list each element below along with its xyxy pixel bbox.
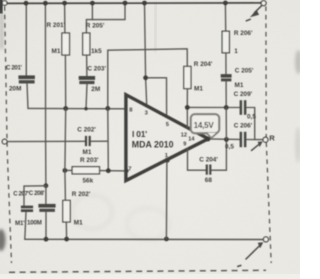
node junction C208/ground: [44, 237, 49, 242]
capacitor C207: [13, 190, 33, 239]
wire pin5 branch: [146, 78, 167, 117]
node junction R203/C202/pin7: [106, 168, 111, 173]
capacitor C202: [77, 127, 107, 156]
node junction bus/R206: [223, 1, 228, 6]
wire input: [7, 140, 85, 142]
wire link 107-139: [225, 108, 227, 140]
node junction bus/C201: [24, 1, 29, 6]
wire output from apex: [208, 138, 239, 141]
wire arrow bottom-right: [238, 242, 263, 266]
op-amp I01 MDA2010: [126, 95, 208, 181]
node junction R204-feed/W1: [105, 106, 110, 111]
resistor R202: [63, 191, 91, 239]
wire left dashed border: [5, 6, 12, 263]
node junction output/C204: [224, 137, 229, 142]
wire top supply bus: [7, 2, 261, 5]
wire pin8 input (W1): [28, 107, 126, 109]
node terminal top-left: [2, 1, 7, 6]
capacitor C204: [188, 140, 227, 185]
resistor R201: [47, 4, 70, 108]
wire ground bus: [25, 238, 263, 240]
node junction C205/wire107: [224, 105, 229, 110]
node terminal output R: [263, 137, 268, 142]
node junction bus/R201: [62, 1, 67, 6]
node junction bus/pin3: [142, 1, 147, 6]
wire arrow top-right: [246, 6, 261, 21]
voltage callout 14,5V: [191, 114, 219, 138]
node terminal bottom-right: [263, 237, 268, 242]
wire R205 feed from bus: [86, 3, 125, 33]
node junction bus/R205feed: [123, 1, 128, 6]
capacitor C206: [225, 122, 263, 150]
node junction R202/ground: [64, 237, 69, 242]
capacitor C201: [6, 4, 35, 108]
node junction pin7/edge: [124, 169, 128, 173]
node junction pin1/edge: [165, 158, 170, 163]
resistor R203: [65, 157, 108, 185]
capacitor C203: [79, 65, 107, 108]
wire bus stub at x92: [91, 3, 93, 19]
wire mid horizontal y107: [187, 106, 239, 108]
wire pin1: [165, 160, 168, 239]
node junction bus/long-line: [43, 1, 48, 6]
node junction pin1/ground: [164, 237, 169, 242]
wire right dashed border: [266, 6, 271, 263]
wire bottom dashed border: [9, 270, 266, 272]
node junction C207/C208 top: [44, 183, 49, 188]
wire left column W1 to R202: [64, 109, 67, 201]
wire pin14 stub: [186, 108, 188, 128]
resistor R204: [184, 61, 213, 108]
wire supply to C207/C208 node: [44, 4, 47, 186]
node junction pin3/pin5: [143, 75, 148, 80]
node terminal top-right: [261, 1, 266, 6]
node junction bus/stub: [90, 1, 95, 6]
node junction R201/W1: [63, 106, 68, 111]
wire C207/C208 node: [24, 186, 46, 206]
wire vertical node N1: [107, 108, 110, 170]
wire pin7: [108, 170, 126, 172]
node junction R203 left: [63, 168, 68, 173]
node junction C203/W1: [84, 107, 87, 110]
node junction apex: [205, 137, 210, 142]
node terminal input left: [2, 139, 7, 144]
wire arrow output R: [252, 141, 263, 150]
capacitor C205: [221, 67, 254, 107]
wire R204 feed: [108, 49, 188, 108]
capacitor C208: [27, 186, 56, 239]
resistor R205: [83, 22, 105, 76]
node junction R204/wire107: [185, 105, 190, 110]
capacitor C209: [234, 91, 257, 140]
wire pin3 column from bus: [145, 3, 147, 107]
resistor R206: [222, 3, 253, 74]
